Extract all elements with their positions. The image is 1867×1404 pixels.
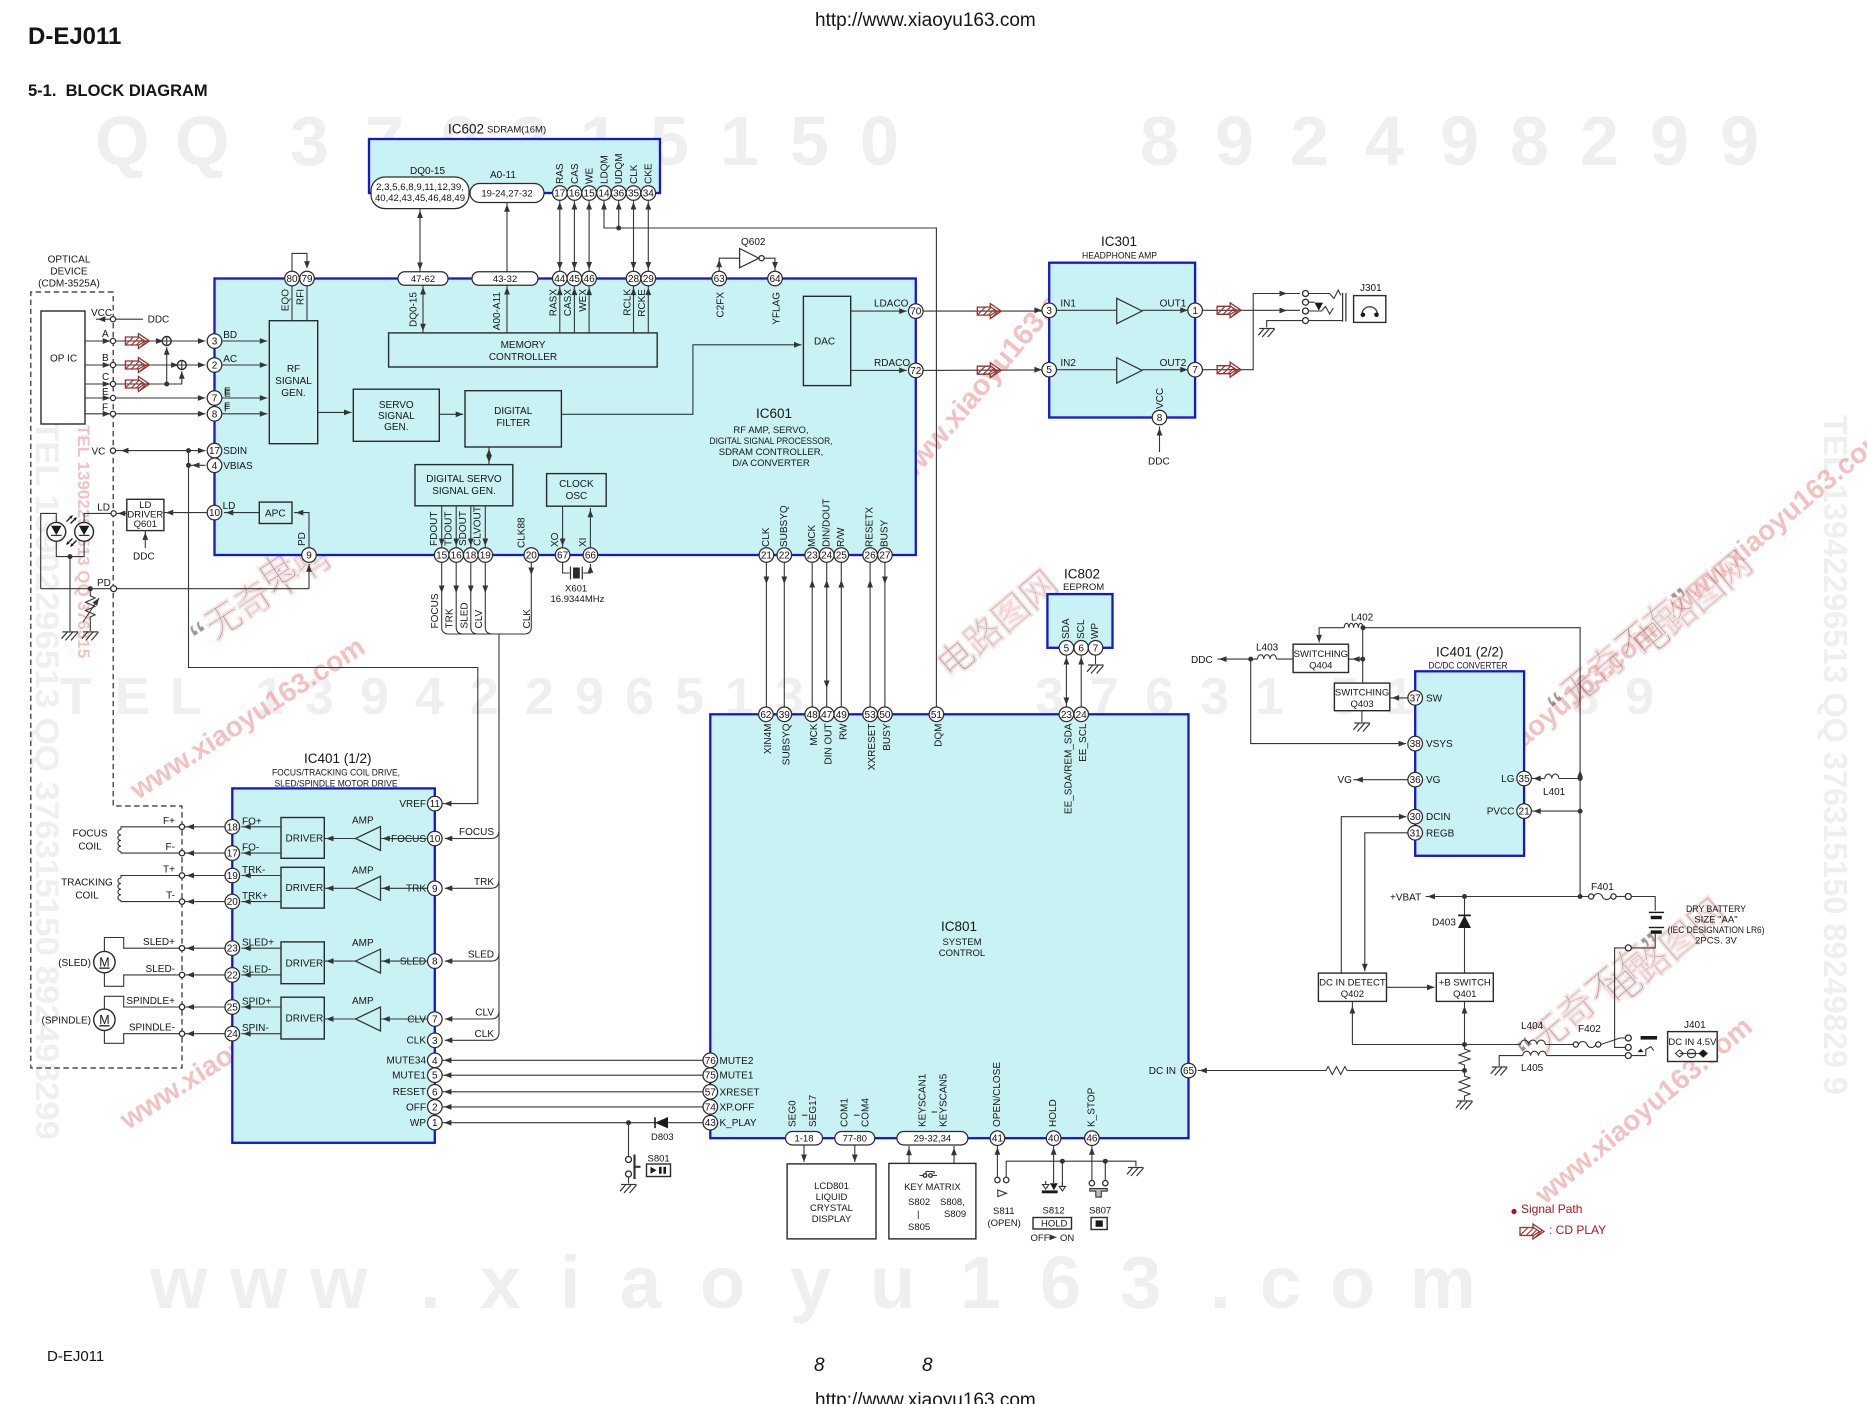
svg-text:CLK: CLK — [475, 1029, 495, 1040]
svg-text:5: 5 — [432, 1071, 438, 1082]
svg-text:COIL: COIL — [78, 842, 102, 853]
wires MC to RCLK RCKE — [633, 286, 635, 333]
wire loop 80 to 79 — [292, 253, 307, 271]
inductor L405 + ground — [1499, 1056, 1523, 1066]
svg-text:6: 6 — [432, 1087, 438, 1098]
svg-text:S811: S811 — [993, 1206, 1014, 1217]
svg-text:http://www.xiaoyu163.com: http://www.xiaoyu163.com — [815, 1390, 1036, 1404]
svg-text:u: u — [870, 1241, 915, 1324]
wire RAS — [559, 200, 561, 271]
svg-text:SEG17: SEG17 — [808, 1094, 819, 1127]
focus coil — [73, 829, 108, 853]
svg-text:46: 46 — [1086, 1134, 1098, 1145]
wire C — [85, 383, 110, 385]
svg-text:VCC: VCC — [1155, 388, 1166, 409]
wires pins to RF box — [222, 340, 267, 342]
wires driver outputs 1 — [241, 826, 281, 828]
svg-text:SDA: SDA — [1061, 618, 1072, 639]
svg-text:MEMORY: MEMORY — [501, 340, 546, 351]
svg-text:OSC: OSC — [566, 491, 588, 502]
wire DDC to pin8 VCC — [1159, 427, 1161, 453]
svg-text:KEYSCAN5: KEYSCAN5 — [939, 1073, 950, 1127]
svg-text:5: 5 — [1064, 643, 1070, 654]
wire LDACO to IN1 — [923, 310, 1042, 312]
svg-text:10: 10 — [209, 508, 221, 519]
svg-text:DIGITAL SIGNAL PROCESSOR,: DIGITAL SIGNAL PROCESSOR, — [710, 436, 833, 447]
svg-text:LIQUID: LIQUID — [816, 1192, 848, 1203]
wires driver outputs 3 — [241, 947, 281, 949]
svg-text:RF: RF — [287, 364, 300, 375]
watermark gray www row bottom — [149, 1241, 1476, 1324]
svg-text:CLK: CLK — [761, 527, 772, 547]
common line of switches — [1006, 1161, 1136, 1177]
svg-text:DQM: DQM — [933, 724, 944, 747]
node VCC — [96, 318, 110, 320]
svg-text:16: 16 — [451, 551, 463, 562]
svg-text:w: w — [229, 1241, 288, 1324]
svg-text:8: 8 — [1140, 102, 1179, 180]
svg-text:SLED: SLED — [468, 950, 494, 961]
svg-text:MUTE2: MUTE2 — [720, 1056, 754, 1067]
svg-text:LD: LD — [97, 502, 110, 513]
svg-text:VC: VC — [92, 447, 106, 458]
wire CKE RCKE — [647, 200, 649, 271]
svg-text:Q401: Q401 — [1453, 989, 1476, 1000]
svg-text:64: 64 — [769, 274, 781, 285]
APC box — [259, 502, 292, 523]
driver box 3 — [281, 942, 324, 984]
wire photodiode top to PD line — [41, 513, 57, 588]
IC801 bottom pin pills — [786, 1131, 823, 1145]
svg-text:S805: S805 — [908, 1222, 930, 1233]
svg-text:MUTE1: MUTE1 — [392, 1071, 426, 1082]
svg-text:COM4: COM4 — [861, 1098, 872, 1127]
memory controller box — [389, 333, 658, 367]
wire VREF net (SDIN/VBIAS to IC401 pin11) — [189, 451, 478, 804]
switch S811 — [996, 1146, 998, 1178]
svg-text:43-32: 43-32 — [493, 274, 517, 285]
IC802 pin7 ground — [1095, 655, 1097, 664]
svg-text:RAS: RAS — [555, 163, 566, 184]
svg-text:C: C — [102, 372, 109, 383]
svg-text:FOCUS: FOCUS — [391, 834, 426, 845]
svg-text:D/A CONVERTER: D/A CONVERTER — [732, 458, 810, 469]
svg-text:D403: D403 — [1432, 918, 1456, 929]
svg-text:Q402: Q402 — [1341, 989, 1364, 1000]
diode D803 — [654, 1117, 656, 1128]
svg-text:OPEN/CLOSE: OPEN/CLOSE — [992, 1062, 1003, 1127]
wire VSYS — [1251, 659, 1406, 744]
wire Q403 to SW — [1390, 697, 1408, 699]
digital servo signal gen box — [415, 465, 513, 506]
svg-text:18: 18 — [465, 551, 477, 562]
svg-text:74: 74 — [705, 1102, 717, 1113]
svg-text:L405: L405 — [1521, 1063, 1544, 1074]
svg-text:SLED+: SLED+ — [143, 937, 175, 948]
svg-text:CLK: CLK — [407, 1036, 427, 1047]
svg-text:20: 20 — [526, 551, 538, 562]
svg-text:2: 2 — [470, 668, 499, 726]
wire digital filter to DAC — [561, 345, 801, 415]
svg-text:IN2: IN2 — [1060, 358, 1076, 369]
wire DC IN to pin65 — [1198, 1070, 1326, 1072]
servo bus branches to IC401 — [445, 831, 499, 839]
wire SCL 6-24 — [1080, 655, 1082, 707]
svg-text:WE: WE — [585, 168, 596, 184]
amp triangle 1 — [356, 827, 381, 851]
svg-text:3: 3 — [432, 1036, 438, 1047]
svg-text:6: 6 — [1040, 1241, 1081, 1324]
svg-text:Q403: Q403 — [1350, 699, 1373, 710]
legend signal path — [1511, 1209, 1516, 1214]
svg-text:11: 11 — [430, 799, 441, 810]
svg-text:CLK: CLK — [522, 609, 533, 629]
svg-text:L403: L403 — [1256, 643, 1279, 654]
svg-text:F401: F401 — [1591, 882, 1614, 893]
svg-text:TRK: TRK — [445, 608, 456, 628]
svg-text:1: 1 — [432, 1118, 438, 1129]
Q403 ground — [1361, 711, 1363, 722]
svg-text:BUSY: BUSY — [882, 723, 893, 751]
wire SDA 5-23 — [1065, 655, 1067, 707]
svg-text:17: 17 — [227, 849, 239, 860]
wire amp2 to OUT2 — [1142, 369, 1188, 371]
svg-text:SIGNAL: SIGNAL — [275, 376, 312, 387]
svg-text:IC801: IC801 — [941, 919, 977, 934]
svg-text:2: 2 — [1580, 102, 1619, 180]
svg-text:TRK+: TRK+ — [242, 891, 268, 902]
junction UDQM/DQM — [616, 226, 621, 231]
IC401(2/2) right pins — [1517, 771, 1532, 786]
svg-text:XO: XO — [550, 532, 561, 547]
wire SUBSYQ 22-39 — [783, 562, 785, 707]
svg-text:DIN OUT: DIN OUT — [824, 724, 835, 765]
svg-text:DIGITAL: DIGITAL — [494, 406, 533, 417]
svg-text:17: 17 — [209, 446, 221, 457]
svg-text:(OPEN): (OPEN) — [988, 1218, 1021, 1229]
jack plug tip — [1641, 1036, 1658, 1040]
svg-text:9: 9 — [1440, 102, 1479, 180]
wire L402 line — [1319, 628, 1580, 894]
svg-text:SPINDLE+: SPINDLE+ — [126, 996, 175, 1007]
DC IN DETECT Q402 box — [1318, 973, 1386, 1001]
svg-text:L: L — [170, 668, 202, 726]
svg-text:L401: L401 — [1543, 787, 1566, 798]
svg-text:MCK: MCK — [807, 524, 818, 547]
svg-text:LD: LD — [223, 501, 236, 512]
svg-text:SWITCHING: SWITCHING — [1335, 688, 1389, 699]
svg-text:49: 49 — [836, 710, 848, 721]
svg-text:CLV: CLV — [407, 1014, 426, 1025]
svg-text:APC: APC — [265, 509, 286, 520]
wire Q402 to Q401 — [1387, 986, 1435, 988]
svg-text:8: 8 — [1510, 102, 1549, 180]
svg-text:S802: S802 — [908, 1197, 930, 1208]
svg-text:2: 2 — [212, 361, 218, 372]
svg-text:c: c — [1260, 1241, 1301, 1324]
svg-text:DRY BATTERY: DRY BATTERY — [1686, 904, 1747, 915]
svg-text:K_STOP: K_STOP — [1087, 1087, 1098, 1127]
key matrix switch icon — [920, 1172, 938, 1176]
svg-text:Q: Q — [95, 102, 149, 180]
svg-text:40: 40 — [1048, 1134, 1060, 1145]
svg-text:RF AMP, SERVO,: RF AMP, SERVO, — [733, 425, 808, 436]
svg-text:SLED/SPINDLE MOTOR DRIVE: SLED/SPINDLE MOTOR DRIVE — [275, 779, 398, 790]
svg-text:8: 8 — [1157, 413, 1163, 424]
svg-text:ON: ON — [1060, 1233, 1074, 1244]
svg-text:DDC: DDC — [133, 552, 155, 563]
node VC wire SDIN — [110, 448, 115, 453]
svg-text:DRIVER: DRIVER — [286, 1014, 324, 1025]
svg-text:26: 26 — [865, 551, 877, 562]
wire L404 line — [1352, 1044, 1520, 1046]
svg-text:COM1: COM1 — [840, 1098, 851, 1127]
svg-text:43: 43 — [705, 1118, 717, 1129]
wire pin to amp 3 — [381, 960, 428, 962]
svg-text:Q404: Q404 — [1309, 661, 1332, 672]
svg-text:L402: L402 — [1351, 613, 1374, 624]
wire MUTE1 — [442, 1074, 703, 1076]
svg-text:SW: SW — [1426, 693, 1443, 704]
svg-text:14: 14 — [598, 189, 610, 200]
wire REGB to Q402 — [1365, 833, 1408, 972]
svg-text:25: 25 — [836, 551, 848, 562]
svg-text:1-18: 1-18 — [794, 1134, 813, 1145]
svg-text:20: 20 — [227, 897, 239, 908]
wire MC to 43-32 — [506, 285, 508, 333]
svg-text:76: 76 — [705, 1056, 717, 1067]
amp triangle 2 — [1117, 358, 1142, 383]
wire amp to driver 4 — [324, 1018, 355, 1020]
IC401(1/2) left pins — [225, 820, 240, 835]
LD DRIVER Q601 box — [127, 499, 164, 530]
svg-text:9: 9 — [360, 668, 389, 726]
svg-text:1: 1 — [720, 102, 759, 180]
wires driver outputs 4 — [241, 1006, 281, 1008]
wire DDC to LD driver — [144, 531, 146, 548]
amp triangle 1 — [1117, 298, 1142, 323]
svg-text:Q602: Q602 — [741, 237, 766, 248]
svg-text:PD: PD — [297, 532, 308, 546]
svg-text:Signal Path: Signal Path — [1521, 1202, 1582, 1216]
IC801 system control block — [710, 714, 1188, 1138]
svg-text:CLV: CLV — [475, 1008, 494, 1019]
svg-text:IC601: IC601 — [756, 406, 792, 421]
svg-text:44: 44 — [554, 274, 566, 285]
wire pin to amp 1 — [381, 838, 428, 840]
svg-text:MUTE1: MUTE1 — [720, 1071, 754, 1082]
light arrows — [67, 516, 77, 547]
svg-text:FOCUS: FOCUS — [430, 593, 441, 628]
RF signal gen box — [269, 321, 317, 444]
svg-text:x: x — [480, 1241, 521, 1324]
svg-text:COIL: COIL — [75, 891, 99, 902]
svg-text:VG: VG — [1338, 775, 1353, 786]
svg-text:2,3,5,6,8,9,11,12,39,: 2,3,5,6,8,9,11,12,39, — [376, 182, 464, 192]
adder node B — [177, 361, 186, 370]
svg-text:1: 1 — [1255, 668, 1284, 726]
wire VG — [1354, 779, 1408, 781]
battery label — [1668, 904, 1765, 947]
wire OFF-XP.OFF — [442, 1106, 703, 1108]
svg-text:2PCS. 3V: 2PCS. 3V — [1695, 936, 1737, 947]
amp triangle 4 — [356, 1007, 381, 1031]
svg-text:CLOCK: CLOCK — [559, 479, 594, 490]
svg-text:CLVOUT: CLVOUT — [473, 506, 484, 546]
svg-text:OFF: OFF — [1031, 1233, 1050, 1244]
wire XI pin66 to clock osc — [589, 508, 591, 548]
svg-text:A0-11: A0-11 — [490, 170, 516, 181]
node SPINDLE+ — [179, 1004, 184, 1009]
svg-text:PD: PD — [97, 578, 111, 589]
wire diode cathodes common to ground — [56, 541, 84, 556]
svg-text:79: 79 — [301, 274, 313, 285]
tracking coil — [61, 878, 113, 902]
wire B — [85, 364, 110, 366]
wire CLK 21-62 — [765, 562, 767, 707]
svg-text:OPTICAL: OPTICAL — [48, 255, 91, 266]
svg-text:DC IN: DC IN — [1149, 1066, 1176, 1077]
svg-text:62: 62 — [760, 710, 772, 721]
svg-text:63: 63 — [714, 274, 726, 285]
svg-text:36: 36 — [1410, 775, 1422, 786]
wire Q404 right to vertical — [1349, 658, 1363, 660]
svg-text:3: 3 — [1200, 668, 1229, 726]
svg-text:66: 66 — [585, 551, 597, 562]
IC601 top pins 80 79 — [285, 271, 300, 286]
wire LDQM to DQM bus — [604, 200, 936, 707]
IC601 DSP block — [215, 279, 916, 556]
svg-text:30: 30 — [1410, 812, 1422, 823]
svg-text:53: 53 — [865, 710, 877, 721]
wire amp to driver 3 — [324, 960, 355, 962]
svg-text:E: E — [115, 668, 150, 726]
svg-text:GEN.: GEN. — [281, 388, 305, 399]
svg-text:DAC: DAC — [814, 337, 835, 348]
svg-text:: CD PLAY: : CD PLAY — [1549, 1223, 1606, 1237]
KEY MATRIX box — [889, 1163, 976, 1239]
svg-text:EE_SCL: EE_SCL — [1078, 723, 1089, 762]
IC401(1/2) right pins — [428, 796, 443, 811]
svg-text:o: o — [700, 1241, 745, 1324]
svg-text:7: 7 — [432, 1015, 438, 1026]
resistor divider bottom + ground — [1459, 1071, 1470, 1101]
wire CLK RCLK — [633, 200, 635, 271]
svg-text:D803: D803 — [651, 1132, 674, 1143]
svg-text:DC IN DETECT: DC IN DETECT — [1319, 978, 1386, 989]
IC401 (2/2) block — [1415, 671, 1524, 856]
wire WP-K_PLAY with diode D803 — [442, 1122, 703, 1124]
polarity symbol — [1676, 1049, 1708, 1057]
svg-text:XI: XI — [578, 538, 589, 547]
svg-text:WEX: WEX — [578, 289, 589, 312]
svg-text:21: 21 — [761, 551, 773, 562]
svg-text:F-: F- — [166, 842, 175, 853]
svg-text:IN1: IN1 — [1060, 299, 1076, 310]
svg-text:YFLAG: YFLAG — [771, 292, 782, 325]
svg-text:4: 4 — [415, 668, 444, 726]
svg-text:.: . — [420, 1241, 441, 1324]
svg-text:4: 4 — [212, 461, 218, 472]
SWITCHING Q403 box — [1334, 683, 1389, 711]
svg-text:15: 15 — [584, 189, 596, 200]
wire RESETX 26-53 — [869, 562, 871, 707]
svg-text:72: 72 — [910, 366, 922, 377]
IC401 (1/2) block — [232, 788, 434, 1142]
svg-text:15: 15 — [436, 551, 448, 562]
svg-text:6: 6 — [1078, 643, 1084, 654]
svg-text:Q601: Q601 — [134, 519, 157, 530]
svg-text:CLK: CLK — [629, 164, 640, 184]
watermark pink diagonals — [74, 254, 1867, 1210]
svg-text:TEL 13942296513 QQ 376315150 8: TEL 13942296513 QQ 376315150 89249829 9 — [1817, 415, 1854, 1095]
wire UDQM — [618, 200, 620, 228]
wire DCIN from Q402 — [1341, 817, 1406, 973]
svg-text:5: 5 — [1046, 365, 1052, 376]
svg-text:DQ0-15: DQ0-15 — [410, 166, 445, 177]
DAC box — [803, 296, 850, 385]
svg-text:TDOUT: TDOUT — [444, 512, 455, 546]
wire servo gen to digital filter — [439, 413, 463, 415]
svg-text:m: m — [1410, 1241, 1476, 1324]
svg-text:CLK88: CLK88 — [517, 517, 528, 548]
IC602 SDRAM block — [369, 139, 660, 193]
svg-text:TRK-: TRK- — [242, 865, 265, 876]
svg-text:(CDM-3525A): (CDM-3525A) — [38, 279, 100, 290]
svg-text:D-EJ011: D-EJ011 — [28, 23, 121, 50]
svg-text:(SLED): (SLED) — [58, 958, 91, 969]
svg-text:w: w — [149, 1241, 208, 1324]
svg-text:FOCUS/TRACKING COIL DRIVE,: FOCUS/TRACKING COIL DRIVE, — [272, 768, 400, 779]
svg-text:IC602: IC602 — [448, 122, 484, 137]
svg-text:16.9344MHz: 16.9344MHz — [551, 594, 605, 605]
adder node A — [162, 337, 171, 346]
servo bus trunk — [445, 634, 499, 1040]
IC801 left pins — [703, 1053, 718, 1068]
svg-text:MCK: MCK — [809, 723, 820, 746]
svg-text:67: 67 — [557, 551, 569, 562]
svg-text:2: 2 — [1290, 102, 1329, 180]
wire CAS — [573, 200, 575, 271]
wire F — [85, 413, 110, 415]
svg-text:1: 1 — [1192, 306, 1198, 317]
svg-text:i: i — [560, 1241, 581, 1324]
svg-text:Q: Q — [175, 102, 229, 180]
svg-text:GEN.: GEN. — [384, 422, 408, 433]
svg-text:DIN/DOUT: DIN/DOUT — [821, 499, 832, 547]
svg-text:+VBAT: +VBAT — [1390, 893, 1421, 904]
svg-text:E: E — [102, 387, 109, 398]
svg-text:24: 24 — [227, 1029, 239, 1040]
node T+ — [179, 873, 184, 878]
wire clock osc to XO pin67 — [562, 506, 564, 548]
wire DAC to pin72 RDACO — [851, 369, 907, 371]
wire pin9 down to PD line — [308, 564, 310, 589]
wire Q402 bottom — [1351, 1001, 1353, 1044]
svg-text:SDOUT: SDOUT — [458, 511, 469, 546]
IC801 pin 65 DC IN — [1181, 1063, 1196, 1078]
switch S812 HOLD — [1053, 1146, 1055, 1184]
IC601 right pins 70 72 — [909, 304, 924, 319]
svg-text:VBIAS: VBIAS — [223, 461, 253, 472]
svg-text:29: 29 — [643, 274, 655, 285]
svg-text:o: o — [1330, 1241, 1375, 1324]
node SLED+ — [179, 946, 184, 951]
svg-text:SDRAM CONTROLLER,: SDRAM CONTROLLER, — [719, 447, 824, 458]
svg-text:21: 21 — [1519, 807, 1531, 818]
node F- — [179, 850, 184, 855]
svg-text:DRIVER: DRIVER — [286, 958, 324, 969]
